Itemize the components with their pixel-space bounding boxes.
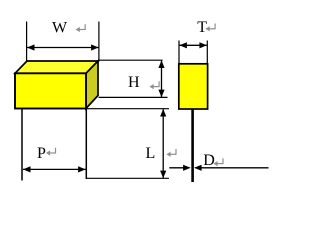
return mark after T xyxy=(206,24,216,32)
return mark after W xyxy=(76,24,86,32)
return mark after P xyxy=(46,148,56,156)
svg-text:L: L xyxy=(146,145,156,162)
dimension D left arrow xyxy=(169,165,190,171)
dimension T right extension line xyxy=(206,41,208,65)
dimension T left extension line xyxy=(178,41,180,65)
dimension D right arrow xyxy=(194,165,268,171)
dimension W arrow xyxy=(27,44,99,50)
return mark after L xyxy=(166,149,176,157)
svg-text:D: D xyxy=(203,152,215,169)
svg-text:P: P xyxy=(37,145,46,162)
body bottom extension line xyxy=(87,108,169,110)
dimension L bottom extension line xyxy=(87,177,170,179)
capacitor body front face xyxy=(15,73,86,108)
svg-text:H: H xyxy=(128,74,140,91)
return mark after H xyxy=(150,81,160,89)
svg-text:T: T xyxy=(197,19,207,36)
svg-text:W: W xyxy=(52,20,68,37)
dimension H arrow xyxy=(158,60,164,97)
dimension L arrow xyxy=(160,109,166,178)
right lead xyxy=(85,109,87,179)
dimension P arrow xyxy=(23,166,86,172)
side view body xyxy=(179,64,208,109)
dimension H bottom extension line xyxy=(99,96,168,98)
dimension H top extension line xyxy=(99,59,163,61)
capacitor body right face xyxy=(86,61,98,109)
dimension W left extension line xyxy=(26,22,28,62)
side view lead xyxy=(191,109,194,182)
return mark after D xyxy=(213,158,223,166)
capacitor body top face xyxy=(15,61,98,73)
dimension W right extension line xyxy=(98,22,100,62)
left lead xyxy=(21,109,23,181)
dimension T arrow xyxy=(179,42,207,48)
